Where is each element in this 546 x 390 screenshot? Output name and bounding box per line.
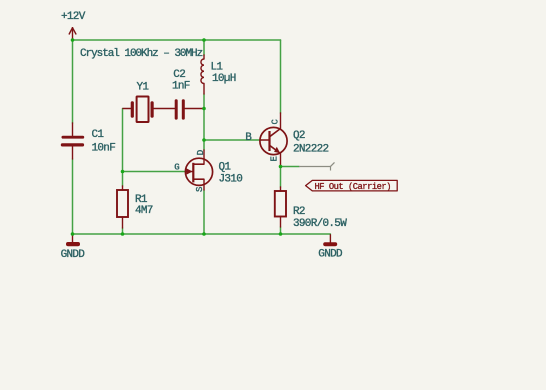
svg-text:10µH: 10µH (212, 73, 236, 85)
svg-text:S: S (195, 187, 205, 192)
svg-text:4M7: 4M7 (135, 205, 153, 217)
svg-text:D: D (195, 149, 206, 155)
svg-text:L1: L1 (211, 62, 224, 74)
svg-text:Y1: Y1 (137, 82, 150, 94)
svg-text:C2: C2 (173, 69, 185, 81)
svg-text:Q2: Q2 (293, 130, 305, 142)
svg-text:+12V: +12V (61, 11, 86, 23)
svg-text:E: E (270, 156, 280, 161)
svg-text:1nF: 1nF (172, 81, 190, 93)
svg-text:Q1: Q1 (219, 162, 232, 174)
svg-text:Crystal 100Khz – 30MHz: Crystal 100Khz – 30MHz (80, 48, 203, 60)
svg-text:G: G (174, 163, 179, 173)
svg-text:390R/0.5W: 390R/0.5W (293, 218, 347, 230)
svg-text:C1: C1 (92, 129, 105, 141)
svg-text:2N2222: 2N2222 (293, 144, 329, 156)
svg-text:10nF: 10nF (92, 143, 116, 155)
svg-text:C: C (271, 119, 281, 125)
svg-text:J310: J310 (219, 174, 243, 186)
svg-text:R2: R2 (293, 206, 305, 218)
svg-text:GNDD: GNDD (318, 249, 343, 261)
svg-text:B: B (245, 132, 252, 144)
svg-text:HF Out (Carrier): HF Out (Carrier) (315, 182, 391, 192)
svg-text:GNDD: GNDD (61, 249, 86, 261)
